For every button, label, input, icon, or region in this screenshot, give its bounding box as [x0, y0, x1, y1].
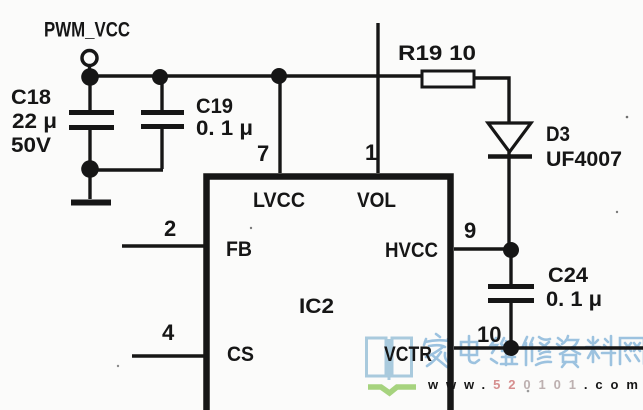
watermark green ribbon [368, 387, 416, 393]
svg-text:IC2: IC2 [299, 295, 334, 318]
svg-text:7: 7 [257, 141, 269, 166]
scan speck [626, 116, 629, 119]
svg-text:10: 10 [477, 322, 501, 347]
svg-text:HVCC: HVCC [385, 239, 438, 262]
svg-text:0. 1 μ: 0. 1 μ [196, 117, 253, 140]
resistor R19 [422, 71, 474, 87]
svg-text:PWM_VCC: PWM_VCC [44, 19, 130, 42]
svg-text:0. 1 μ: 0. 1 μ [546, 288, 602, 311]
watermark char 网 [620, 338, 643, 364]
watermark char 资 [557, 336, 580, 367]
svg-text:50V: 50V [11, 134, 51, 157]
svg-text:C19: C19 [196, 95, 233, 118]
wire pin 4 [132, 354, 204, 357]
watermark char 电 [461, 336, 479, 363]
capacitor C18 [69, 83, 114, 199]
wire top bus [90, 74, 422, 77]
svg-text:9: 9 [464, 218, 476, 243]
watermark char 修 [523, 337, 551, 365]
svg-text:FB: FB [226, 238, 252, 261]
junction dot C19 tap [152, 69, 168, 85]
op-amp IC2 box [207, 177, 451, 410]
svg-text:VOL: VOL [357, 189, 396, 212]
svg-text:VCTR: VCTR [384, 343, 432, 366]
diode D3 [488, 123, 532, 244]
wire C19 bottom to C18 junction [88, 168, 163, 171]
wire pin 10 VCTR out [454, 346, 643, 349]
svg-text:1: 1 [365, 140, 377, 165]
watermark book icon [367, 338, 412, 380]
watermark char 料 [586, 336, 615, 365]
wire pin 9 [454, 247, 511, 250]
capacitor C24 [488, 256, 534, 348]
wire terminal to junction [88, 65, 91, 70]
svg-text:C24: C24 [548, 264, 588, 287]
ground [71, 200, 111, 206]
svg-text:C18: C18 [11, 86, 51, 109]
junction dot VCTR node [503, 340, 519, 356]
svg-text:CS: CS [227, 343, 254, 366]
scan speck [616, 211, 618, 213]
wire resistor to diode corner [474, 78, 509, 122]
watermark chinese characters 家电维修资料网 [424, 334, 643, 367]
wire pin 1 vertical [376, 23, 379, 173]
terminal PWM_VCC [82, 51, 97, 66]
junction dot pin7 tap [271, 68, 287, 84]
junction dot C18 bottom [81, 160, 99, 178]
junction dot HVCC node [503, 242, 519, 258]
svg-text:22 μ: 22 μ [12, 110, 57, 133]
svg-text:2: 2 [164, 216, 176, 241]
svg-text:4: 4 [162, 320, 175, 345]
svg-text:D3: D3 [546, 123, 570, 146]
scan speck [250, 227, 252, 229]
svg-text:LVCC: LVCC [253, 189, 305, 212]
svg-text:R19 10: R19 10 [398, 42, 476, 65]
capacitor C19 [141, 84, 184, 169]
scan speck [527, 390, 530, 393]
wire pin 7 vertical [278, 80, 281, 173]
svg-text:www.520101.com: www.520101.com [427, 377, 643, 392]
junction dot at PWM_VCC [81, 68, 99, 86]
svg-text:UF4007: UF4007 [546, 148, 622, 171]
watermark char 维 [491, 338, 517, 365]
watermark char 家 [424, 334, 450, 367]
scan speck [117, 365, 119, 367]
wire pin 2 [122, 244, 204, 247]
